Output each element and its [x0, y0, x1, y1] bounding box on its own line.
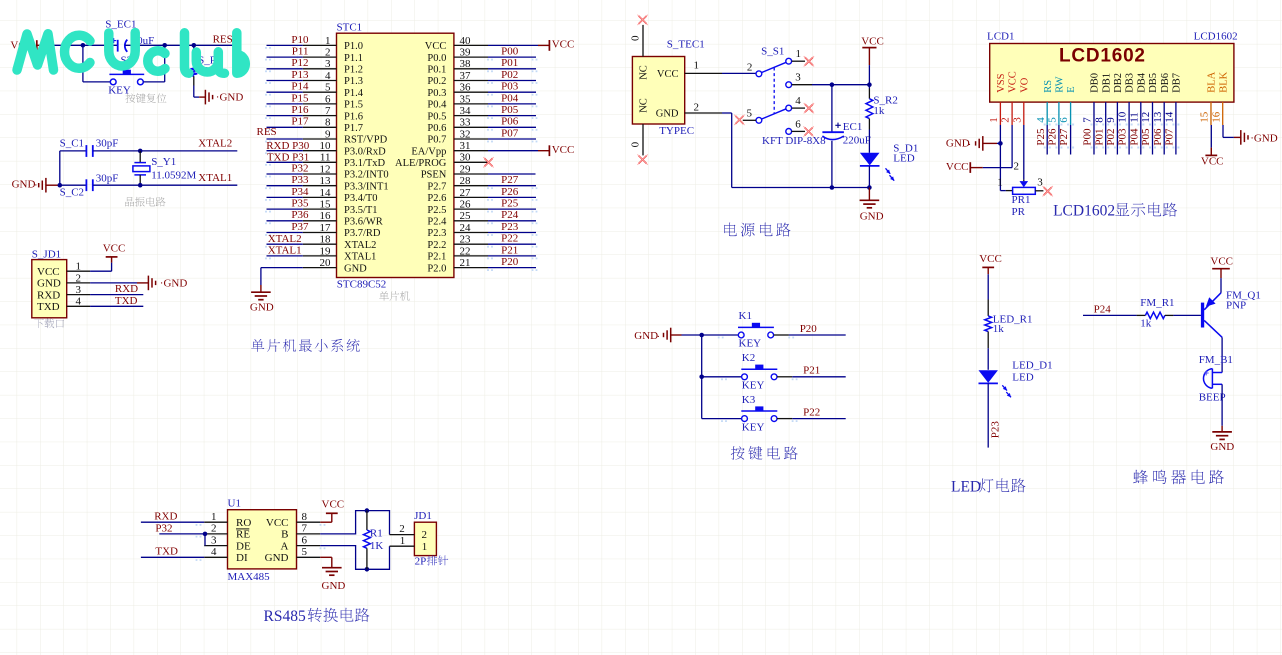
svg-text:P33: P33 — [291, 174, 309, 186]
svg-text:P02: P02 — [1105, 128, 1117, 145]
svg-text:GND: GND — [12, 178, 36, 190]
svg-text:TXD: TXD — [155, 546, 178, 558]
svg-text:TYPEC: TYPEC — [659, 125, 694, 137]
svg-text:U1: U1 — [228, 497, 241, 509]
wire cap to RES — [125, 44, 237, 46]
svg-text:P0.4: P0.4 — [427, 100, 447, 111]
svg-text:P25: P25 — [1035, 128, 1047, 146]
svg-text:S_Y1: S_Y1 — [151, 156, 176, 168]
svg-text:VCC: VCC — [657, 69, 679, 80]
svg-text:TXD: TXD — [115, 295, 138, 307]
svg-text:RES: RES — [213, 33, 233, 45]
wire + net label P23 — [987, 383, 989, 447]
svg-text:1: 1 — [400, 535, 406, 547]
svg-text:30pF: 30pF — [96, 137, 119, 149]
svg-text:·: · — [968, 139, 972, 151]
svg-text:6: 6 — [302, 534, 308, 546]
wire VCC to cap S_EC1 — [42, 44, 117, 46]
svg-text:PNP: PNP — [1226, 299, 1246, 311]
svg-text:·GND: ·GND — [216, 92, 244, 104]
svg-text:P06: P06 — [1152, 128, 1164, 146]
svg-text:0: 0 — [629, 35, 641, 41]
bottom rail wire — [722, 112, 732, 114]
mcu left wires and net labels — [267, 44, 303, 46]
svg-text:P1.1: P1.1 — [344, 53, 363, 64]
svg-text:3: 3 — [211, 534, 217, 546]
svg-text:P3.3/INT1: P3.3/INT1 — [344, 181, 389, 192]
svg-text:E: E — [1066, 86, 1077, 92]
svg-text:VCC: VCC — [1201, 156, 1224, 168]
svg-text:2: 2 — [422, 529, 428, 541]
svg-text:R1: R1 — [370, 527, 383, 539]
svg-text:VO: VO — [1019, 77, 1030, 93]
svg-text:XTAL1: XTAL1 — [344, 252, 376, 263]
power port VCC (max485) — [320, 521, 332, 523]
svg-text:VCC: VCC — [552, 39, 575, 51]
svg-text:P0.5: P0.5 — [427, 111, 446, 122]
title text — [1133, 470, 1224, 485]
svg-text:P36: P36 — [291, 209, 309, 221]
svg-text:P22: P22 — [803, 407, 820, 419]
svg-text:P3.4/T0: P3.4/T0 — [344, 193, 378, 204]
svg-text:P2.1: P2.1 — [427, 252, 446, 263]
label 晶振电路 — [125, 197, 165, 207]
svg-text:8: 8 — [1093, 117, 1105, 123]
svg-text:220uF: 220uF — [843, 134, 871, 146]
svg-text:P25: P25 — [501, 198, 519, 210]
svg-text:4: 4 — [211, 546, 217, 558]
wire RXD — [90, 294, 143, 296]
svg-text:5: 5 — [747, 107, 753, 119]
title text — [731, 446, 798, 460]
svg-text:K1: K1 — [739, 310, 752, 322]
svg-text:30pF: 30pF — [96, 172, 119, 184]
svg-text:RE: RE — [236, 529, 250, 541]
svg-text:VCC: VCC — [103, 243, 126, 255]
title text — [308, 608, 370, 622]
svg-text:P1.6: P1.6 — [344, 111, 363, 122]
svg-text:5: 5 — [302, 546, 308, 558]
svg-text:P3.2/INT0: P3.2/INT0 — [344, 170, 389, 181]
wire B loop — [320, 511, 389, 535]
svg-text:5: 5 — [1047, 117, 1059, 123]
svg-text:RXD: RXD — [115, 283, 138, 295]
svg-text:1k: 1k — [873, 105, 885, 117]
svg-text:DB6: DB6 — [1160, 73, 1171, 93]
svg-text:P37: P37 — [291, 221, 309, 233]
title text — [724, 223, 790, 237]
svg-text:P21: P21 — [501, 244, 518, 256]
svg-text:P3.6/WR: P3.6/WR — [344, 217, 383, 228]
svg-text:RXD: RXD — [154, 511, 177, 523]
svg-text:P24: P24 — [501, 209, 519, 221]
svg-text:GND: GND — [344, 263, 367, 274]
svg-text:DB5: DB5 — [1148, 73, 1159, 93]
svg-text:VCC: VCC — [861, 36, 884, 48]
svg-text:2: 2 — [399, 523, 405, 535]
svg-text:·: · — [657, 331, 661, 343]
svg-text:K3: K3 — [742, 394, 756, 406]
svg-text:DB7: DB7 — [1172, 73, 1183, 93]
svg-text:GND: GND — [265, 552, 289, 564]
svg-text:RO: RO — [236, 517, 251, 529]
logo MCUclub — [17, 33, 245, 74]
svg-text:KEY: KEY — [742, 421, 765, 433]
potentiometer PR1 — [1013, 187, 1036, 194]
svg-text:11.0592M: 11.0592M — [151, 169, 196, 181]
svg-text:P02: P02 — [501, 69, 518, 81]
lcd pin3 wire to PR1 wiper — [1023, 125, 1025, 180]
svg-text:1k: 1k — [993, 323, 1005, 335]
title text — [1115, 203, 1177, 217]
svg-text:NC: NC — [639, 98, 650, 113]
svg-text:LCD1602: LCD1602 — [1059, 45, 1145, 66]
capacitor EC1 220uF — [831, 85, 833, 132]
svg-text:1: 1 — [694, 59, 700, 71]
svg-text:1: 1 — [988, 117, 1000, 123]
svg-text:P22: P22 — [501, 233, 518, 245]
svg-text:DI: DI — [236, 552, 248, 564]
mcu pin20 gnd — [261, 267, 303, 269]
svg-text:P26: P26 — [501, 186, 519, 198]
svg-text:3: 3 — [1011, 117, 1023, 123]
svg-text:DB4: DB4 — [1136, 72, 1147, 93]
svg-text:P00: P00 — [1082, 128, 1094, 146]
svg-text:P20: P20 — [800, 323, 818, 335]
svg-text:TXD P31: TXD P31 — [267, 152, 309, 164]
svg-text:2: 2 — [747, 61, 753, 73]
svg-text:VCC: VCC — [322, 499, 345, 511]
svg-text:P0.7: P0.7 — [427, 135, 446, 146]
svg-text:STC1: STC1 — [337, 21, 363, 33]
svg-text:P3.1/TxD: P3.1/TxD — [344, 158, 386, 169]
svg-text:P16: P16 — [291, 104, 309, 116]
wire gnd riser — [59, 151, 61, 185]
gnd (buzzer) — [1221, 384, 1223, 426]
svg-text:P3.5/T1: P3.5/T1 — [344, 205, 378, 216]
svg-text:·GND: ·GND — [160, 278, 188, 290]
svg-text:P14: P14 — [291, 81, 309, 93]
svg-text:XTAL1: XTAL1 — [198, 172, 232, 184]
svg-text:1: 1 — [211, 511, 217, 523]
svg-text:GND: GND — [250, 302, 274, 314]
gnd (max485) — [320, 556, 332, 558]
svg-text:FM_B1: FM_B1 — [1199, 354, 1233, 366]
svg-text:4: 4 — [1035, 117, 1047, 123]
svg-text:DB2: DB2 — [1113, 73, 1124, 93]
svg-text:VCC: VCC — [979, 253, 1002, 265]
svg-text:P04: P04 — [1128, 128, 1140, 146]
svg-text:DB1: DB1 — [1101, 73, 1112, 93]
svg-text:P35: P35 — [291, 198, 309, 210]
svg-text:P2.7: P2.7 — [427, 181, 446, 192]
svg-text:RS: RS — [1043, 80, 1054, 93]
wire TXD — [90, 305, 143, 307]
svg-text:P2.2: P2.2 — [427, 240, 446, 251]
svg-text:RES: RES — [257, 126, 277, 138]
svg-text:·: · — [34, 180, 38, 192]
svg-text:P2.6: P2.6 — [427, 193, 446, 204]
svg-text:P07: P07 — [1164, 128, 1176, 146]
svg-text:P24: P24 — [1094, 303, 1112, 315]
svg-text:P34: P34 — [291, 186, 309, 198]
svg-text:P11: P11 — [292, 46, 309, 58]
svg-text:PR1: PR1 — [1012, 194, 1031, 206]
svg-text:P15: P15 — [291, 92, 309, 104]
svg-text:S_C1: S_C1 — [60, 137, 84, 149]
svg-text:P23: P23 — [501, 221, 519, 233]
svg-text:P0.6: P0.6 — [427, 123, 446, 134]
svg-text:P00: P00 — [501, 46, 519, 58]
svg-text:VCC: VCC — [1210, 256, 1233, 268]
wire A loop — [320, 546, 389, 570]
svg-text:A: A — [281, 540, 289, 552]
wire collector to buzzer — [1221, 337, 1223, 372]
svg-text:2P: 2P — [415, 556, 427, 568]
gnd (download) — [90, 282, 137, 284]
label 排针 — [427, 555, 448, 565]
title text — [251, 339, 360, 352]
svg-text:GND: GND — [322, 580, 346, 592]
svg-text:P2.0: P2.0 — [427, 263, 446, 274]
svg-text:P07: P07 — [501, 127, 519, 139]
svg-text:P12: P12 — [291, 57, 308, 69]
svg-text:2: 2 — [694, 101, 700, 113]
svg-text:P1.7: P1.7 — [344, 123, 363, 134]
junction dots reset net — [81, 43, 86, 48]
svg-text:P2.3: P2.3 — [427, 228, 446, 239]
lcd wires + rotated net labels — [1046, 125, 1048, 155]
svg-text:P0.1: P0.1 — [427, 65, 446, 76]
svg-text:P04: P04 — [501, 92, 519, 104]
lcd pin1 wire to PR1 — [999, 125, 1001, 191]
gnd (power) — [868, 188, 870, 200]
lcd pin16 BLK to gnd — [1222, 125, 1224, 137]
svg-text:P1.4: P1.4 — [344, 88, 364, 99]
svg-text:P2.5: P2.5 — [427, 205, 446, 216]
svg-text:LED: LED — [893, 153, 914, 165]
label 下载口 — [34, 319, 64, 329]
svg-text:KFT DIP-8X8: KFT DIP-8X8 — [762, 135, 826, 147]
svg-text:RXD P30: RXD P30 — [266, 140, 310, 152]
svg-text:GND: GND — [1210, 441, 1234, 453]
svg-text:12: 12 — [1140, 112, 1152, 123]
svg-text:1: 1 — [422, 541, 428, 553]
wire XTAL1 — [140, 184, 237, 186]
svg-text:LED: LED — [1012, 372, 1033, 384]
svg-text:VCC: VCC — [946, 161, 969, 173]
svg-text:P21: P21 — [803, 365, 820, 377]
gnd (reset) — [194, 96, 199, 98]
svg-text:VCC: VCC — [266, 517, 289, 529]
svg-text:16: 16 — [1210, 111, 1222, 123]
svg-text:DB3: DB3 — [1125, 73, 1136, 93]
svg-text:VCC: VCC — [425, 41, 447, 52]
svg-text:DE: DE — [236, 540, 251, 552]
svg-text:S_S1: S_S1 — [761, 46, 784, 58]
svg-text:GND: GND — [656, 109, 679, 120]
svg-text:2: 2 — [1000, 117, 1012, 123]
svg-text:P01: P01 — [1093, 128, 1105, 145]
svg-text:XTAL2: XTAL2 — [344, 240, 376, 251]
svg-text:S_C2: S_C2 — [60, 187, 84, 199]
svg-text:ALE/PROG: ALE/PROG — [395, 158, 447, 169]
svg-text:4: 4 — [795, 95, 801, 107]
svg-text:EA/Vpp: EA/Vpp — [411, 146, 446, 157]
svg-text:RST/VPD: RST/VPD — [344, 135, 388, 146]
svg-text:LCD1: LCD1 — [987, 31, 1015, 43]
wire XTAL2 — [140, 150, 237, 152]
svg-text:P20: P20 — [501, 256, 519, 268]
svg-text:1: 1 — [997, 177, 1003, 189]
wire TYPEC pin1 to switch — [722, 72, 756, 74]
svg-text:14: 14 — [1164, 111, 1176, 123]
svg-text:LED: LED — [951, 478, 981, 495]
svg-text:RW: RW — [1055, 76, 1066, 92]
svg-text:·GND: ·GND — [1250, 132, 1278, 144]
svg-text:2: 2 — [211, 523, 217, 535]
svg-text:2: 2 — [1014, 161, 1020, 173]
svg-text:P1.3: P1.3 — [344, 76, 363, 87]
svg-text:P05: P05 — [1140, 128, 1152, 146]
svg-text:P13: P13 — [291, 69, 309, 81]
svg-text:P0.0: P0.0 — [427, 53, 446, 64]
svg-text:9: 9 — [1105, 117, 1117, 123]
svg-text:3: 3 — [795, 71, 801, 83]
wire switch pin3 to vcc rail — [812, 84, 869, 86]
svg-text:P05: P05 — [501, 104, 519, 116]
wires RXD / P32 / TXD — [141, 521, 204, 523]
svg-text:3: 3 — [1037, 177, 1043, 189]
svg-text:P03: P03 — [1117, 128, 1129, 146]
svg-text:P23: P23 — [990, 421, 1002, 439]
svg-text:P3.0/RxD: P3.0/RxD — [344, 146, 386, 157]
label 按键复位 — [126, 93, 167, 103]
lcd pin15 BLA to VCC — [1210, 125, 1212, 148]
svg-text:GND: GND — [860, 210, 884, 222]
svg-text:P27: P27 — [1058, 128, 1070, 146]
svg-text:P2.4: P2.4 — [427, 217, 447, 228]
svg-text:0: 0 — [629, 141, 641, 147]
svg-text:P3.7/RD: P3.7/RD — [344, 228, 381, 239]
svg-text:MAX485: MAX485 — [228, 571, 271, 583]
svg-text:TXD: TXD — [37, 301, 60, 313]
svg-text:S_JD1: S_JD1 — [32, 248, 61, 260]
svg-text:P32: P32 — [291, 162, 308, 174]
svg-text:P27: P27 — [501, 174, 519, 186]
svg-text:NC: NC — [639, 65, 650, 80]
svg-text:LCD1602: LCD1602 — [1053, 203, 1115, 220]
svg-text:PSEN: PSEN — [421, 170, 447, 181]
svg-text:7: 7 — [302, 523, 308, 535]
svg-text:FM_R1: FM_R1 — [1140, 297, 1174, 309]
svg-text:10: 10 — [1117, 111, 1129, 123]
mcu right wires / labels — [488, 44, 538, 46]
svg-text:STC89C52: STC89C52 — [337, 279, 387, 291]
svg-text:XTAL2: XTAL2 — [198, 138, 232, 150]
resistor R1 1K — [365, 508, 370, 513]
svg-text:GND: GND — [946, 138, 970, 150]
svg-text:P10: P10 — [291, 34, 309, 46]
svg-text:RXD: RXD — [37, 289, 60, 301]
svg-text:KEY: KEY — [739, 338, 762, 350]
svg-text:RS485: RS485 — [264, 608, 306, 625]
svg-text:P0.2: P0.2 — [427, 76, 446, 87]
svg-text:GND: GND — [634, 330, 658, 342]
svg-text:P06: P06 — [501, 116, 519, 128]
svg-text:B: B — [281, 529, 288, 541]
svg-text:KEY: KEY — [742, 380, 765, 392]
svg-text:11: 11 — [1128, 112, 1140, 123]
svg-text:P1.5: P1.5 — [344, 100, 363, 111]
svg-text:JD1: JD1 — [414, 510, 432, 522]
svg-text:P32: P32 — [155, 522, 172, 534]
svg-text:VSS: VSS — [996, 73, 1007, 92]
svg-text:7: 7 — [1082, 117, 1094, 123]
svg-text:P26: P26 — [1047, 128, 1059, 146]
svg-text:EC1: EC1 — [843, 121, 863, 133]
svg-text:LCD1602: LCD1602 — [1194, 31, 1238, 43]
svg-text:XTAL2: XTAL2 — [268, 233, 302, 245]
svg-text:6: 6 — [1058, 117, 1070, 123]
svg-text:P03: P03 — [501, 81, 519, 93]
overline RE — [236, 528, 249, 530]
svg-text:K2: K2 — [742, 352, 755, 364]
vcc (download) — [90, 270, 112, 272]
svg-text:8: 8 — [302, 511, 308, 523]
svg-text:XTAL1: XTAL1 — [268, 245, 302, 257]
svg-text:P0.3: P0.3 — [427, 88, 446, 99]
svg-text:P01: P01 — [501, 57, 518, 69]
svg-text:LED_D1: LED_D1 — [1012, 360, 1052, 372]
svg-text:BLK: BLK — [1218, 71, 1229, 92]
title text — [979, 478, 1025, 492]
svg-text:DB0: DB0 — [1090, 73, 1101, 93]
svg-text:P1.2: P1.2 — [344, 65, 363, 76]
svg-text:1K: 1K — [370, 540, 384, 552]
label 单片机 — [379, 291, 410, 301]
svg-text:BLA: BLA — [1207, 71, 1218, 92]
svg-text:PR: PR — [1012, 206, 1026, 218]
svg-text:15: 15 — [1199, 111, 1211, 123]
svg-text:P17: P17 — [291, 116, 309, 128]
svg-text:VCC: VCC — [37, 266, 60, 278]
svg-text:VCC: VCC — [1008, 71, 1019, 93]
svg-text:S_TEC1: S_TEC1 — [667, 38, 705, 50]
svg-text:1: 1 — [796, 48, 802, 60]
svg-text:VCC: VCC — [552, 144, 575, 156]
svg-text:13: 13 — [1152, 111, 1164, 123]
svg-text:GND: GND — [37, 278, 61, 290]
svg-text:6: 6 — [795, 118, 801, 130]
svg-text:P1.0: P1.0 — [344, 41, 363, 52]
